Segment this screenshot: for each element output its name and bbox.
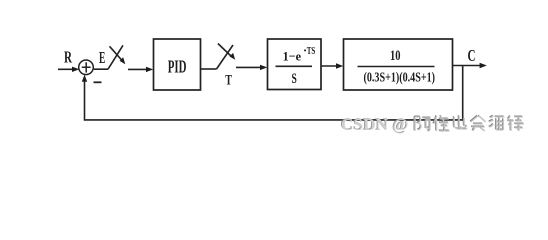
minus sign at summing junction — [94, 81, 102, 83]
summing junction circle — [79, 60, 94, 75]
wire R input — [58, 68, 77, 70]
sampler switch 2 arm — [217, 45, 234, 69]
svg-text:R: R — [64, 48, 73, 67]
svg-text:S: S — [292, 71, 297, 87]
svg-text:CSDN @: CSDN @ — [341, 115, 409, 134]
sampler switch 2 cross stroke — [218, 44, 232, 57]
watermark glyph 编 shadow layer — [489, 115, 504, 129]
watermark glyph 编 highlight layer — [489, 116, 504, 130]
svg-text:10: 10 — [390, 48, 401, 64]
arrowhead into ZOH — [260, 65, 267, 70]
feedback path — [85, 66, 463, 120]
watermark hanzi (drawn strokes) — [414, 115, 524, 131]
watermark glyph 会 highlight layer — [471, 116, 486, 131]
watermark glyph 程 shadow layer — [507, 115, 523, 130]
svg-text:1−e: 1−e — [283, 49, 302, 64]
watermark glyph 会 shadow layer — [470, 115, 485, 130]
arrowhead into PID — [146, 67, 153, 72]
block PID box — [154, 39, 201, 90]
wire into PID — [128, 68, 150, 70]
sampler switch 1 arm — [108, 45, 123, 69]
watermark glyph 阿 highlight layer — [415, 117, 431, 131]
svg-text:PID: PID — [168, 56, 187, 76]
sampler switch 1 cross stroke — [110, 46, 123, 61]
watermark glyph 程 highlight layer — [508, 116, 524, 131]
watermark glyph 健 shadow layer — [433, 115, 449, 130]
svg-text:E: E — [99, 48, 105, 67]
arrowhead feedback into summing junction — [82, 75, 87, 82]
wire into ZOH block — [236, 66, 264, 68]
block plant box — [344, 39, 453, 90]
arrowhead into plant — [336, 63, 343, 68]
block ZOH box — [268, 39, 322, 90]
wire PID to sampler 2 — [201, 68, 217, 70]
arrowhead sampler 2 cross — [230, 53, 236, 60]
wire E segment — [94, 68, 108, 70]
ZOH fraction bar — [276, 65, 313, 67]
arrowhead sampler 1 cross — [120, 57, 126, 64]
svg-text:C: C — [468, 46, 476, 65]
svg-text:(0.3S+1)(0.4S+1): (0.3S+1)(0.4S+1) — [364, 69, 436, 85]
wire ZOH to plant — [321, 65, 340, 67]
ZOH exponent -TS — [304, 50, 306, 52]
arrowhead output C — [480, 63, 487, 68]
watermark glyph 阿 shadow layer — [414, 116, 430, 130]
svg-text:T: T — [225, 73, 232, 89]
watermark glyph 也 shadow layer — [453, 115, 466, 128]
watermark glyph 也 highlight layer — [454, 116, 467, 129]
plant fraction bar — [358, 66, 435, 68]
wire output C — [453, 65, 483, 67]
watermark glyph 健 highlight layer — [434, 116, 450, 131]
plus sign inside summing junction — [82, 62, 91, 72]
watermark CSDN @ — [340, 114, 408, 134]
arrowhead into summing junction — [72, 67, 79, 72]
svg-text:TS: TS — [307, 46, 316, 57]
